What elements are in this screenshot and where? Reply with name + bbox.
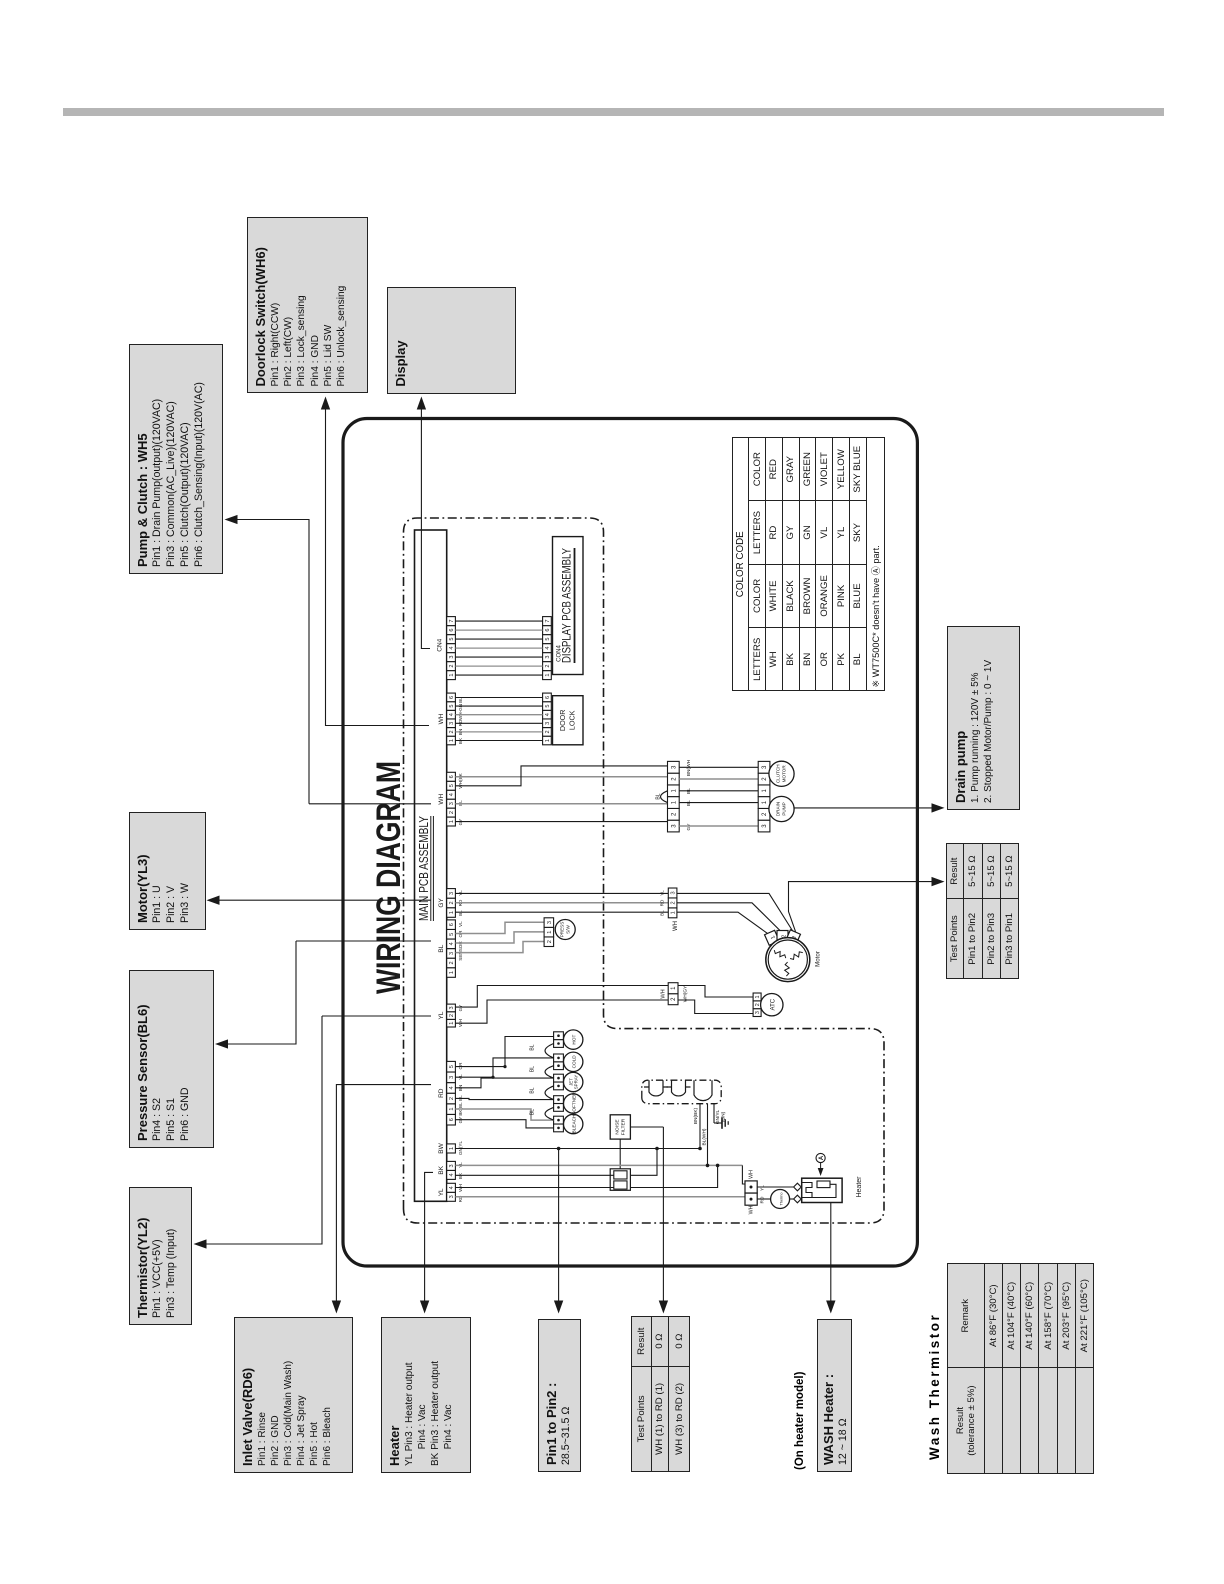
label box Motor YL3 (129, 812, 206, 930)
wire RD pin3 to COLD valve (455, 1058, 553, 1077)
svg-text:DRAIN: DRAIN (776, 802, 781, 816)
wire ground from plug (713, 1104, 715, 1123)
svg-text:COLD: COLD (572, 1055, 577, 1069)
svg-text:4: 4 (449, 1086, 455, 1089)
connector CN4 (display) on main PCB (447, 671, 456, 680)
svg-text:OR: OR (458, 1062, 463, 1070)
wires CN4 to CON4 (455, 674, 542, 676)
svg-text:WIRING DIAGRAM: WIRING DIAGRAM (370, 761, 408, 994)
wire YL pin1 to WH 2-pin connector (455, 1000, 668, 1023)
svg-text:GY: GY (438, 898, 445, 908)
svg-text:BL: BL (530, 1066, 536, 1072)
svg-text:4: 4 (449, 942, 455, 945)
svg-text:YL: YL (438, 1188, 445, 1196)
clutch motor symbol (769, 761, 794, 786)
wire to Pin1-Pin2 label (558, 1149, 560, 1308)
svg-text:1: 1 (762, 800, 768, 804)
svg-text:YL: YL (760, 1185, 766, 1191)
svg-text:BW: BW (438, 1142, 445, 1153)
thermal fuse block (610, 1169, 630, 1191)
wire YL pin4 to thermal fuse (455, 1187, 614, 1189)
svg-text:1: 1 (545, 674, 551, 677)
inlet valve HOT solenoid (564, 1030, 583, 1049)
connector drain pump (758, 820, 770, 832)
wire BL pin5 to pressure switch (gray) (455, 922, 544, 933)
svg-text:6: 6 (449, 775, 455, 778)
svg-text:1: 1 (449, 820, 455, 823)
label box Doorlock Switch WH6 (247, 217, 369, 394)
junction dots on valve wires (503, 1065, 506, 1068)
wire RD pin6 to BLEACH valve (455, 1120, 553, 1128)
svg-text:2: 2 (545, 665, 551, 668)
svg-text:2: 2 (449, 1014, 455, 1017)
label box Drain pump (947, 626, 1021, 810)
svg-text:GN/YL: GN/YL (715, 1109, 721, 1124)
svg-text:5: 5 (449, 933, 455, 936)
circled A part marker (816, 1153, 825, 1162)
connector pressure switch (544, 937, 554, 947)
svg-text:S/W: S/W (566, 925, 571, 934)
label box Pin1 to Pin2 resistance (538, 1319, 581, 1472)
daisy chain arc BL 2 (545, 1066, 554, 1078)
wire BK pin3 down (gray) (455, 1164, 742, 1166)
inlet valve SOFTNER solenoid (564, 1094, 583, 1113)
svg-text:3: 3 (545, 722, 551, 725)
svg-text:2: 2 (449, 1097, 455, 1100)
daisy chain arc BL 4 (545, 1107, 554, 1120)
svg-text:2: 2 (449, 730, 455, 733)
wire drain pump to test arrow (794, 807, 938, 809)
svg-text:3: 3 (547, 921, 553, 924)
wash heater box (802, 1178, 842, 1202)
connector RD (inlet valves) on main PCB (447, 1114, 456, 1125)
svg-text:HOT: HOT (572, 1035, 577, 1045)
svg-text:3: 3 (449, 1006, 455, 1009)
label (On heater model) (794, 1372, 806, 1470)
connector YL (heater) on main PCB (447, 1192, 456, 1201)
svg-text:3: 3 (545, 656, 551, 659)
wire WH5 pin3 to drain pump connector (gray) (455, 803, 667, 805)
wire to heater terminal WH1 (742, 1165, 745, 1184)
svg-text:3: 3 (671, 891, 677, 894)
plug prong 3 (ground) (694, 1080, 712, 1100)
label box Inlet Valve RD6 (234, 1318, 353, 1474)
label box Pump & Clutch WH5 (129, 344, 223, 574)
svg-text:BK: BK (438, 1165, 445, 1174)
noise filter box (610, 1115, 630, 1139)
svg-text:YL: YL (458, 890, 463, 896)
svg-text:7: 7 (449, 620, 455, 623)
wire WH2 to thermostat (757, 1198, 771, 1200)
wire noise filter to thermal fuse (619, 1139, 621, 1169)
wire WH pin2 to ATC pin3 (678, 1000, 753, 1014)
svg-text:GN(YL: GN(YL (458, 1141, 463, 1155)
wire RD pin2 to SOFTNER valve (455, 1098, 553, 1099)
svg-text:DOOR: DOOR (558, 710, 567, 732)
svg-text:4: 4 (449, 793, 455, 796)
svg-text:4: 4 (449, 713, 455, 716)
svg-text:3: 3 (449, 1195, 455, 1198)
svg-text:Motor: Motor (815, 951, 822, 967)
wire WH5 pin5 to clutch connector with jog (455, 766, 667, 786)
svg-text:YL: YL (438, 1011, 445, 1019)
svg-text:FILTER: FILTER (621, 1118, 627, 1135)
svg-text:1: 1 (449, 1108, 455, 1111)
svg-text:1: 1 (449, 1022, 455, 1025)
diamond terminal 1 (794, 1183, 802, 1191)
svg-text:4: 4 (449, 1173, 455, 1176)
svg-text:BL: BL (530, 1087, 536, 1093)
wire RD pin1 to BLEACH valve (gray) (455, 1109, 553, 1120)
svg-text:2: 2 (671, 812, 677, 816)
heater element meander (802, 1183, 812, 1198)
wire to Thermistor label (198, 1016, 322, 1244)
svg-text:3: 3 (755, 1011, 761, 1014)
daisy chain arc BL 1 (545, 1044, 554, 1058)
svg-text:1: 1 (671, 800, 677, 804)
daisy chain arc BL 3 (545, 1086, 554, 1100)
label box Thermistor YL2 (129, 1187, 192, 1325)
inlet valve SOFTNER pins (554, 1104, 564, 1112)
heater inner rect (817, 1181, 830, 1188)
wire to WASH Heater label (830, 1203, 832, 1308)
svg-text:6: 6 (449, 923, 455, 926)
dash-dot main/display PCB assembly enclosure (404, 518, 885, 1223)
wire to Pressure Sensor label (219, 941, 296, 1044)
connector CON4 on display PCB (543, 671, 552, 680)
svg-text:1: 1 (762, 788, 768, 792)
svg-text:1: 1 (755, 995, 761, 998)
wire to Motor label (213, 899, 431, 901)
connector BW on main PCB (447, 1144, 456, 1153)
svg-text:BL: BL (458, 910, 463, 916)
svg-text:2: 2 (671, 777, 677, 781)
svg-text:NOISE: NOISE (614, 1119, 620, 1135)
svg-text:RD: RD (760, 1196, 766, 1203)
svg-text:MOTOR: MOTOR (782, 765, 787, 783)
svg-text:2: 2 (671, 997, 677, 1001)
svg-text:CLUTCH: CLUTCH (776, 764, 781, 783)
svg-text:BL: BL (458, 1095, 463, 1101)
svg-text:3: 3 (671, 765, 677, 769)
svg-text:2: 2 (671, 901, 677, 904)
wire to Pump & Clutch label (231, 520, 309, 804)
svg-text:1: 1 (449, 1147, 455, 1150)
svg-text:6: 6 (449, 629, 455, 632)
ATC sensor symbol (761, 994, 783, 1016)
connector WH6 (doorlock) on main PCB (447, 736, 456, 745)
svg-text:1: 1 (449, 971, 455, 974)
svg-text:RD: RD (458, 719, 463, 726)
connector WH5 (pump and clutch) on main PCB (447, 817, 456, 826)
connector BL (pressure sensor) on main PCB (447, 968, 456, 978)
svg-text:1: 1 (449, 911, 455, 914)
wire motor phase U (677, 912, 771, 936)
page header rule (63, 108, 1164, 116)
svg-text:4: 4 (449, 647, 455, 650)
svg-text:3: 3 (449, 1076, 455, 1079)
svg-text:RD: RD (660, 899, 665, 906)
svg-text:3: 3 (762, 765, 768, 769)
svg-text:MAIN PCB ASSEMBLY: MAIN PCB ASSEMBLY (416, 816, 431, 921)
wire to Inlet Valve label (336, 1085, 431, 1307)
wire WH1 to diamond (757, 1186, 793, 1188)
connector BK clutch (668, 785, 680, 797)
svg-text:4: 4 (545, 713, 551, 716)
wire thermostat to diamond (790, 1198, 794, 1200)
svg-text:4: 4 (449, 1186, 455, 1189)
svg-text:6: 6 (545, 696, 551, 699)
svg-text:2: 2 (762, 812, 768, 816)
svg-text:BL: BL (656, 793, 662, 799)
wire fuse 1 stub to GN/YL bus (630, 1149, 657, 1176)
svg-text:6: 6 (449, 1118, 455, 1121)
plug prong 1 (644, 1080, 668, 1096)
wire to Doorlock Switch label (326, 403, 430, 726)
wire motor phase V (677, 903, 782, 933)
connector ATC (753, 1009, 761, 1017)
wire plug live BN(BK) (699, 1104, 701, 1149)
svg-text:YL: YL (660, 890, 665, 896)
wire YL pin3 to WH 2-pin connector (455, 986, 668, 1008)
svg-text:6: 6 (545, 629, 551, 632)
svg-text:3: 3 (449, 722, 455, 725)
svg-text:SOFTNER: SOFTNER (572, 1092, 577, 1115)
wire RD pin5 to HOT valve (455, 1037, 553, 1067)
thermostat symbol (771, 1190, 790, 1209)
motor winding zigzags (774, 950, 785, 958)
svg-text:2: 2 (449, 665, 455, 668)
svg-text:3: 3 (762, 824, 768, 828)
svg-text:BL: BL (458, 800, 463, 806)
wire motor test point to result table (789, 882, 939, 932)
svg-text:3: 3 (449, 952, 455, 955)
inlet valve COLD solenoid (564, 1052, 583, 1071)
inlet valve COLD pins (554, 1062, 564, 1070)
svg-text:3: 3 (449, 802, 455, 805)
door lock box (553, 696, 584, 745)
svg-text:1: 1 (671, 788, 677, 792)
svg-text:6: 6 (449, 696, 455, 699)
svg-text:BL: BL (530, 1109, 536, 1115)
wire plug neutral BL(WH) (707, 1104, 709, 1166)
svg-text:VL: VL (458, 921, 463, 927)
diamond terminal 2 (794, 1195, 802, 1203)
svg-text:5: 5 (449, 784, 455, 787)
wires GY to motor harness connector (455, 911, 668, 913)
junction dot (698, 1147, 702, 1151)
display PCB assembly box (553, 537, 584, 675)
connector YL (thermistor/ATC) on main PCB (447, 1019, 456, 1027)
wire to Heater label (425, 1172, 433, 1307)
svg-text:Heater: Heater (856, 1176, 863, 1198)
svg-text:1: 1 (545, 739, 551, 742)
wire BK pin4 to thermal fuse (455, 1174, 614, 1176)
color code table (732, 437, 885, 692)
heater terminal WH 1 (745, 1181, 757, 1193)
label Wash Thermistor (927, 1313, 942, 1460)
svg-text:BL: BL (530, 1044, 536, 1050)
svg-text:CN4: CN4 (437, 638, 444, 651)
svg-text:DISPLAY PCB ASSEMBLY: DISPLAY PCB ASSEMBLY (562, 548, 574, 663)
svg-text:1: 1 (671, 986, 677, 990)
plug prong 2 (667, 1080, 691, 1096)
connector door lock harness (543, 736, 552, 745)
connector WH motor harness (668, 908, 677, 918)
heater terminal WH 2 (745, 1193, 757, 1205)
svg-text:5: 5 (545, 704, 551, 707)
wires to clutch motor (679, 766, 758, 768)
svg-text:3: 3 (449, 656, 455, 659)
connector BL drain pump (668, 820, 680, 832)
wire BL pin3 to pressure switch (gray) (455, 942, 544, 953)
wire WH5 pin1 to drain pump connector (455, 821, 667, 823)
svg-text:A: A (819, 1155, 825, 1160)
wire YL pin3 (gray) to heater terminal (455, 1196, 745, 1198)
inlet valve JET SPRAY solenoid (564, 1072, 583, 1091)
connector clutch motor (758, 785, 770, 797)
inlet valve JET SPRAY pins (554, 1082, 564, 1090)
svg-text:3: 3 (449, 892, 455, 895)
svg-text:5: 5 (449, 638, 455, 641)
wire to test points table (662, 1127, 664, 1307)
earth ground symbol (714, 1122, 722, 1124)
drain pump symbol (769, 796, 794, 821)
svg-text:BN(BK): BN(BK) (693, 1107, 699, 1124)
svg-text:WH: WH (749, 1205, 755, 1214)
svg-text:2: 2 (762, 777, 768, 781)
connector WH 2-pin (ATC harness) (668, 994, 678, 1005)
wires WH6 to door lock (455, 740, 542, 742)
wire fuse 2 stub to BL(WH) bus (630, 1165, 717, 1187)
label box Display (387, 287, 515, 393)
svg-text:WH: WH (661, 989, 667, 998)
wire Display to CN4 inside (421, 419, 430, 649)
label box Heater (381, 1318, 472, 1474)
test table motor pins (946, 843, 1019, 979)
junction dot (706, 1164, 710, 1168)
svg-text:BLEACH: BLEACH (572, 1115, 577, 1134)
wire motor phase W (677, 893, 793, 931)
pressure switch symbol (555, 920, 575, 940)
outer enclosure (washer cabinet outline) (343, 419, 917, 1267)
wires to drain pump (679, 802, 758, 804)
svg-text:BL(WH): BL(WH) (701, 1128, 707, 1145)
svg-text:BL: BL (660, 910, 665, 916)
svg-text:1: 1 (449, 674, 455, 677)
wash thermistor table (947, 1263, 1094, 1474)
svg-text:4: 4 (545, 647, 551, 650)
wire RD pin4 to JET SPRAY valve (455, 1078, 553, 1088)
wire WH5 pin6 to clutch connector (455, 776, 667, 778)
motor pin wedges 1 2 3 (765, 930, 780, 945)
connector BK (heater) on main PCB (447, 1170, 456, 1179)
inlet valve HOT pins (554, 1040, 564, 1048)
svg-text:SPRAY: SPRAY (574, 1075, 579, 1090)
svg-text:3: 3 (671, 824, 677, 828)
svg-text:2: 2 (449, 901, 455, 904)
svg-text:5: 5 (545, 638, 551, 641)
svg-text:1: 1 (671, 911, 677, 914)
svg-text:GY: GY (458, 1005, 463, 1012)
svg-text:PUMP: PUMP (782, 802, 787, 815)
motor symbol (3-phase windings) (766, 938, 810, 982)
wire BL pin4 to pressure switch (gray) (455, 932, 544, 943)
svg-text:1: 1 (547, 931, 553, 934)
svg-text:2: 2 (545, 730, 551, 733)
svg-text:5: 5 (449, 1065, 455, 1068)
inlet valve BLEACH pins (554, 1124, 564, 1132)
svg-text:WH: WH (438, 713, 445, 724)
svg-text:2: 2 (449, 961, 455, 964)
test table WH to RD (631, 1316, 691, 1472)
svg-text:1: 1 (449, 739, 455, 742)
svg-text:BL: BL (438, 944, 445, 952)
svg-text:ATC: ATC (771, 998, 777, 1010)
connector GY (motor) on main PCB (447, 908, 456, 918)
wire BW pin1 (GN/YL) down to plug junction (455, 1148, 700, 1150)
jumper arc BL between pump and clutch connectors (661, 791, 668, 803)
power cord plug enclosure (dash-dot) (642, 1080, 721, 1104)
inlet valve BLEACH solenoid (564, 1114, 583, 1133)
label box Pressure Sensor BL6 (129, 970, 214, 1148)
svg-text:WH: WH (749, 1170, 755, 1179)
svg-text:5: 5 (449, 704, 455, 707)
svg-text:3: 3 (449, 1164, 455, 1167)
svg-text:WH: WH (673, 921, 679, 931)
svg-text:7: 7 (545, 620, 551, 623)
svg-text:RD: RD (438, 1088, 445, 1098)
svg-text:LOCK: LOCK (568, 710, 577, 730)
label box WASH Heater (817, 1319, 852, 1472)
svg-text:Thermo: Thermo (779, 1192, 783, 1205)
svg-text:2: 2 (449, 811, 455, 814)
wire to Display label (420, 403, 422, 419)
svg-text:2: 2 (547, 940, 553, 943)
svg-text:WH: WH (438, 793, 445, 804)
wire WH pin1 to ATC pin1 (678, 986, 753, 998)
arrow from A marker to heater (820, 1163, 822, 1173)
wire noise filter to test arrow (630, 1126, 663, 1128)
svg-text:PRESS: PRESS (560, 922, 565, 938)
main PCB bar (415, 530, 447, 1201)
